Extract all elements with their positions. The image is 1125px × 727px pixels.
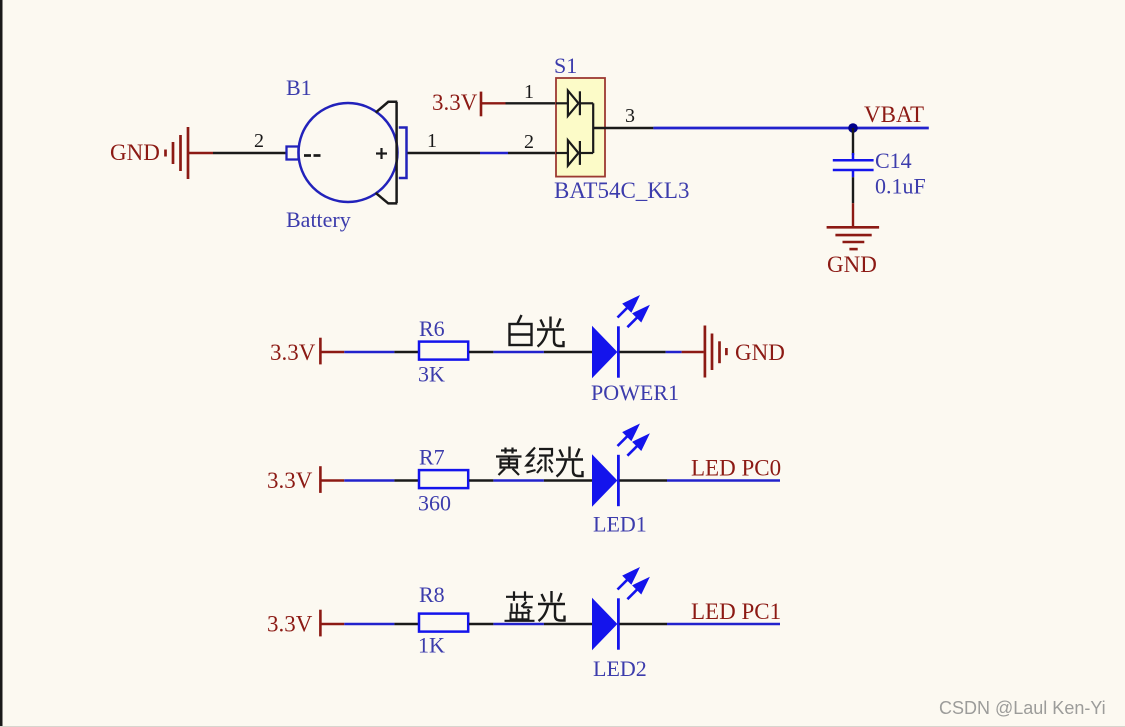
LED arrow 1 <box>618 298 638 318</box>
svg-text:GND: GND <box>735 340 785 365</box>
svg-text:1: 1 <box>427 130 437 152</box>
wire blue row2 a <box>344 479 394 481</box>
hanzi 绿 <box>527 448 553 474</box>
power port 3.3V row3 <box>319 610 322 637</box>
battery holder black outline <box>376 102 398 204</box>
resistor R8 <box>419 614 468 632</box>
wire red row3 <box>320 623 344 625</box>
LED2 arrow 2 <box>627 580 647 600</box>
wire black row1 d <box>619 351 665 353</box>
svg-text:3.3V: 3.3V <box>267 468 313 493</box>
diode pack S1 body <box>556 78 605 177</box>
svg-text:R6: R6 <box>419 316 445 341</box>
svg-text:LED1: LED1 <box>593 512 647 537</box>
hanzi 白 <box>510 315 532 345</box>
svg-text:1K: 1K <box>418 633 445 658</box>
battery plus mark <box>376 148 387 159</box>
wire red row1 b <box>682 351 704 353</box>
svg-text:C14: C14 <box>875 148 912 173</box>
bottom border line <box>0 726 1125 727</box>
wire blue row1 c <box>666 351 682 353</box>
svg-text:VBAT: VBAT <box>864 102 924 127</box>
hanzi 光 row1 <box>537 317 564 347</box>
svg-text:GND: GND <box>827 252 877 277</box>
power port GND left <box>166 127 189 179</box>
wire gnd-battery red part <box>189 152 213 154</box>
svg-text:POWER1: POWER1 <box>591 380 679 405</box>
wire VBAT blue <box>653 127 928 130</box>
power port 3.3V row2 <box>319 466 322 493</box>
diode D-bottom inside S1 <box>556 140 593 165</box>
svg-text:3: 3 <box>625 105 635 127</box>
internal bus S1 <box>592 103 594 153</box>
wire black row3 c <box>544 623 593 625</box>
hanzi 蓝 <box>505 591 535 621</box>
svg-text:S1: S1 <box>554 53 577 78</box>
wire blue row3 b <box>493 623 544 625</box>
svg-text:2: 2 <box>524 131 534 153</box>
LED2 arrow 1 <box>618 570 638 590</box>
svg-text:360: 360 <box>418 491 451 516</box>
svg-text:BAT54C_KL3: BAT54C_KL3 <box>554 178 689 203</box>
wire red row2 <box>320 479 344 481</box>
wire black row3 d <box>619 623 667 625</box>
svg-text:R7: R7 <box>419 445 445 470</box>
wire blue row1 b <box>493 351 544 353</box>
wire pin3 black part <box>593 127 653 129</box>
wire VBAT-C14 black <box>852 128 854 155</box>
pin square battery negative <box>287 147 299 160</box>
battery minus marks <box>304 154 321 157</box>
svg-text:2: 2 <box>254 130 264 152</box>
wire battery-S1 black part2 <box>508 152 556 154</box>
wire blue row3 a <box>344 623 394 625</box>
wire C14-GND red part <box>852 203 854 227</box>
LED arrow 2 <box>627 308 647 328</box>
wire blue row2 b <box>493 479 544 481</box>
wire black row3 a <box>394 623 419 625</box>
svg-text:LED PC0: LED PC0 <box>691 456 781 481</box>
battery blue bracket <box>399 128 407 179</box>
hanzi 光 row3 <box>538 591 565 621</box>
resistor R7 <box>419 470 468 488</box>
diode D-top inside S1 <box>556 91 593 116</box>
junction dot VBAT <box>848 123 858 133</box>
hanzi 黄 <box>496 448 522 476</box>
wire black row1 c <box>544 351 593 353</box>
svg-text:LED2: LED2 <box>593 656 647 681</box>
hanzi 光 row2 <box>556 447 583 477</box>
svg-text:Battery: Battery <box>286 207 351 232</box>
svg-text:3.3V: 3.3V <box>270 340 316 365</box>
power port GND row1 <box>705 326 727 378</box>
svg-text:CSDN @Laul Ken-Yi: CSDN @Laul Ken-Yi <box>939 698 1106 718</box>
wire battery-S1 black part1 <box>408 152 481 154</box>
wire blue row1 a <box>344 351 394 353</box>
svg-text:3.3V: 3.3V <box>267 612 313 637</box>
wire black row2 b <box>469 479 493 481</box>
power port 3.3V top <box>480 92 483 117</box>
svg-text:3K: 3K <box>418 362 445 387</box>
LED1 arrow 1 <box>618 426 638 446</box>
wire C14-GND black part <box>852 177 854 203</box>
svg-text:1: 1 <box>524 81 534 103</box>
svg-text:LED PC1: LED PC1 <box>691 599 781 624</box>
LED POWER1 <box>592 298 647 378</box>
power port 3.3V row1 <box>319 338 322 365</box>
wire red row1 <box>320 351 344 353</box>
wire black row3 b <box>469 623 493 625</box>
left border bar <box>0 0 3 727</box>
capacitor C14 <box>833 153 874 177</box>
svg-text:B1: B1 <box>286 75 312 100</box>
wire blue row3 c (net stub) <box>667 623 780 626</box>
LED LED2 <box>592 570 647 650</box>
wire 3.3V-S1 black part <box>506 102 557 104</box>
wire black row1 b <box>469 351 493 353</box>
LED LED1 <box>592 426 647 506</box>
svg-text:0.1uF: 0.1uF <box>875 174 926 199</box>
resistor R6 <box>419 342 468 360</box>
power port GND under C14 <box>827 227 880 249</box>
wire black row2 c <box>544 479 593 481</box>
svg-text:3.3V: 3.3V <box>432 90 478 115</box>
svg-text:R8: R8 <box>419 582 445 607</box>
wire black row1 a <box>394 351 419 353</box>
svg-text:GND: GND <box>110 140 160 165</box>
wire black row2 a <box>394 479 419 481</box>
battery B1 circle <box>299 103 398 202</box>
LED1 arrow 2 <box>627 436 647 456</box>
wire battery-S1 blue part <box>480 152 508 154</box>
wire 3.3V-S1 red part <box>481 102 506 104</box>
wire gnd-battery black part <box>213 152 287 154</box>
wire black row2 d <box>619 479 667 481</box>
wire blue row2 c (net stub) <box>667 479 780 482</box>
